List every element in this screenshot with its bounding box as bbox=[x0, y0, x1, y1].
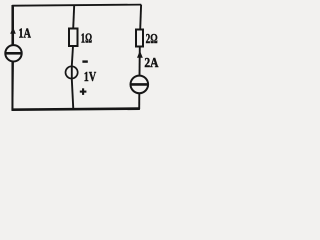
svg-text:2A: 2A bbox=[144, 56, 159, 71]
svg-text:2Ω: 2Ω bbox=[146, 32, 158, 47]
svg-text:1A: 1A bbox=[18, 26, 31, 41]
svg-text:1Ω: 1Ω bbox=[81, 30, 92, 45]
svg-text:1V: 1V bbox=[84, 69, 96, 84]
